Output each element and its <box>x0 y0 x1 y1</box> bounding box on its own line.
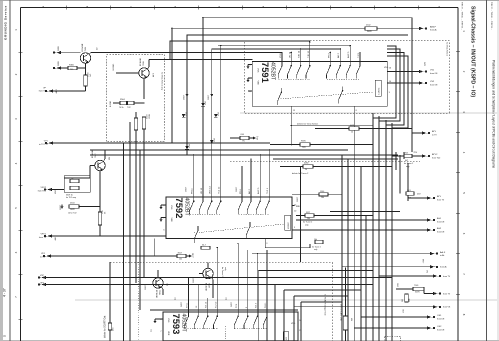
wire down to VP rail <box>85 86 87 91</box>
diode D3144 <box>185 146 189 149</box>
resistor R75R <box>300 143 310 146</box>
svg-text:ILGND: ILGND <box>110 100 112 107</box>
resistor R3309a <box>70 179 79 182</box>
svg-text:AD 2: AD 2 <box>337 52 340 58</box>
wire vertical bus at 203 <box>202 18 204 185</box>
wire emitter down <box>85 63 87 75</box>
wire vertical at 211.7 <box>211 49 213 185</box>
wire RGN with arrow <box>230 137 240 139</box>
svg-text:TU2 12: TU2 12 <box>219 186 221 194</box>
wire AS2 output <box>292 229 427 231</box>
right margin rule <box>486 0 488 341</box>
top ruler ticks <box>65 6 67 10</box>
wire bus E5 <box>143 144 145 278</box>
IC7591 switch array 1 <box>278 62 283 79</box>
svg-text:ATV: ATV <box>437 195 442 198</box>
resistor R3507 <box>177 254 186 257</box>
wire vertical at 187 <box>186 35 188 155</box>
transistor Q7508 <box>153 278 163 288</box>
wire top bus A <box>203 17 412 19</box>
wire bus down D2 <box>378 116 380 341</box>
svg-text:4 - 37: 4 - 37 <box>3 288 7 297</box>
svg-text:Platinenabbildungen und Schalt: Platinenabbildungen und Schaltpläne / La… <box>492 60 496 168</box>
wire TOL down <box>99 225 101 236</box>
svg-text:BC848B: BC848B <box>155 290 157 298</box>
svg-text:GRDY: GRDY <box>297 196 299 202</box>
wire right col vert 2 <box>399 155 401 194</box>
wire bus down D4 <box>391 123 393 341</box>
svg-text:from TV: from TV <box>437 199 445 201</box>
svg-text:TVR 37 ... TVR 41 ... TVR 55: TVR 37 ... TVR 41 ... TVR 55 ... <box>490 2 492 30</box>
svg-text:100R: 100R <box>149 114 151 119</box>
wire 7593 top bus <box>150 309 298 311</box>
diode D3145 <box>214 114 218 117</box>
wire bus corner 2 <box>387 49 400 113</box>
svg-text:GRDY: GRDY <box>236 186 238 192</box>
svg-text:VFV1: VFV1 <box>41 234 47 236</box>
svg-text:TV 11: TV 11 <box>187 302 189 308</box>
svg-text:for Tuner 2: for Tuner 2 <box>404 162 413 165</box>
svg-text:from DE: from DE <box>437 318 445 320</box>
wire VS1 output <box>387 71 419 73</box>
svg-text:RGN: RGN <box>301 141 306 143</box>
svg-text:P8 4: P8 4 <box>328 53 330 58</box>
dotted line delete for SCART Out <box>138 262 140 341</box>
svg-text:LOGIC: LOGIC <box>288 222 290 229</box>
svg-text:GRD: GRD <box>58 46 60 51</box>
wire vertical at 220.7 <box>220 46 222 185</box>
wire base 7507 <box>90 165 95 167</box>
diode D3141 <box>201 103 205 106</box>
wire vertical at 300.5 <box>300 167 302 263</box>
wire VTV rail <box>53 142 270 144</box>
resistor R3304 <box>84 75 87 86</box>
svg-text:VD 15: VD 15 <box>201 187 203 194</box>
wire bus C3 <box>360 167 362 341</box>
svg-text:AMLP: AMLP <box>430 25 436 28</box>
wire top bus C <box>187 34 408 36</box>
wire emitter 7507 down <box>99 171 101 212</box>
resistor R282 <box>405 294 408 302</box>
svg-text:for TU2 amp: for TU2 amp <box>66 197 76 199</box>
wire right col vert 1 <box>395 152 397 170</box>
svg-text:ASC 5: ASC 5 <box>347 51 350 58</box>
svg-text:Rx: Rx <box>71 178 73 180</box>
IC7592 dashed control 1 <box>190 214 221 216</box>
svg-text:7592: 7592 <box>174 198 185 219</box>
svg-text:10k: 10k <box>321 197 324 199</box>
svg-text:3460: 3460 <box>425 62 427 66</box>
resistor R3508 <box>201 246 210 249</box>
wire MID output <box>292 205 295 207</box>
ground at 7591 <box>247 65 250 69</box>
wire bus E2 <box>129 122 131 341</box>
svg-text:P8 4: P8 4 <box>240 189 242 194</box>
wire bus B6 <box>300 302 302 341</box>
svg-text:282: 282 <box>402 299 404 302</box>
wire jog D2 <box>379 113 400 121</box>
svg-text:7591: 7591 <box>260 62 271 83</box>
svg-text:VSS: VSS <box>170 205 172 210</box>
wire 7508 leads <box>157 270 159 278</box>
svg-text:25/1: 25/1 <box>405 153 409 155</box>
svg-text:TJE 12: TJE 12 <box>308 50 310 58</box>
wire 7592 pin3 route <box>265 239 310 248</box>
IC7591 dashed link lower <box>278 92 373 99</box>
IC7592 pin stubs group2 <box>241 167 243 198</box>
svg-text:GRDY: GRDY <box>181 301 183 307</box>
wire at 345.5 <box>345 268 347 316</box>
svg-text:ILGND: ILGND <box>113 63 115 70</box>
svg-text:only: only <box>314 249 317 251</box>
svg-text:4042: 4042 <box>55 190 57 194</box>
svg-text:1k: 1k <box>351 131 353 133</box>
svg-text:to TV: to TV <box>432 133 437 136</box>
svg-text:10k: 10k <box>307 218 310 220</box>
IC7592 dashed lower link <box>194 224 284 233</box>
svg-text:TU2 1: TU2 1 <box>265 302 267 308</box>
wire collector 7507 up <box>104 159 106 161</box>
dashed partial box bottom <box>385 336 401 341</box>
svg-text:25/1: 25/1 <box>407 190 411 192</box>
wire VFV1 rail continue <box>100 235 166 237</box>
svg-text:from DE: from DE <box>437 231 445 233</box>
svg-text:740: 740 <box>70 69 73 71</box>
svg-text:VSS: VSS <box>257 68 259 73</box>
svg-text:from OE: from OE <box>430 84 438 86</box>
svg-text:from TU2: from TU2 <box>38 190 47 192</box>
wire ATV to TV output <box>412 132 422 134</box>
wire vertical at 110 <box>109 262 111 323</box>
wire collector to right bus <box>90 53 92 54</box>
svg-text:for Tuner 2: for Tuner 2 <box>221 267 223 278</box>
svg-text:GRD: GRD <box>58 61 60 66</box>
svg-text:VFV2: VFV2 <box>41 187 47 189</box>
svg-text:AdLF: AdLF <box>440 251 446 254</box>
paper fold lines <box>240 112 497 114</box>
svg-text:340R: 340R <box>367 31 372 33</box>
svg-text:delete for View Select: delete for View Select <box>297 123 319 126</box>
svg-text:BC848B: BC848B <box>205 283 207 291</box>
resistor R25V b <box>406 192 414 195</box>
filter box 3309 <box>64 176 90 193</box>
wire bus corner 4 <box>387 56 408 113</box>
svg-text:from DE: from DE <box>437 329 445 331</box>
wire bus corner 3 <box>387 53 404 114</box>
svg-text:delete for SCART Out: delete for SCART Out <box>104 315 107 338</box>
wire through R4081 <box>315 128 349 130</box>
svg-text:Signal-Chassis – IN/OUT (KSPD: Signal-Chassis – IN/OUT (KSPD – IO) <box>470 6 476 97</box>
svg-text:from TU2: from TU2 <box>432 157 441 159</box>
wire ATV2 output <box>392 155 404 157</box>
svg-text:VEE: VEE <box>167 331 169 336</box>
svg-text:only: only <box>224 267 226 271</box>
resistor R1540 <box>319 193 328 196</box>
wire bus corner 5 <box>411 18 413 152</box>
IC7593 pin stubs group2 <box>237 244 239 313</box>
wire bus B1 <box>258 270 373 272</box>
wire corner at 170 <box>169 41 171 60</box>
svg-text:10k: 10k <box>179 259 182 261</box>
wire VF1 rail <box>51 255 177 257</box>
wire across resistor pair <box>113 102 120 104</box>
svg-text:3144: 3144 <box>189 144 191 148</box>
wire R4082 <box>280 166 303 168</box>
svg-text:to TV TXT: to TV TXT <box>39 143 49 146</box>
svg-text:74.5k: 74.5k <box>119 107 124 109</box>
IC7591 switch array 2 <box>327 62 332 79</box>
IC7593 switch array 2 <box>234 312 239 329</box>
svg-text:7593: 7593 <box>171 314 182 335</box>
IC7592 dashed control 2 <box>239 214 270 216</box>
wire bus B5 <box>293 296 295 341</box>
svg-text:OS2: OS2 <box>437 326 442 328</box>
wire from TV row 1 <box>379 275 433 277</box>
wire bus E3 <box>135 112 137 283</box>
svg-text:VEE: VEE <box>170 218 172 223</box>
wire mid bus 4 <box>150 149 348 151</box>
wire jog D4 <box>392 113 408 128</box>
wire R3527 <box>296 215 305 217</box>
wire right col vert 4 <box>407 163 409 201</box>
svg-text:LO: LO <box>286 337 288 340</box>
svg-text:from AL: from AL <box>430 29 438 32</box>
wire collector link to pins <box>164 52 282 54</box>
wire OS1 row <box>361 316 427 318</box>
wire bus B2 <box>266 278 268 341</box>
svg-text:TVR 37 ... TVR 41 ... TVR 55: TVR 37 ... TVR 41 ... TVR 55 ... <box>461 2 463 30</box>
wire base feed <box>61 52 80 54</box>
svg-text:OS1: OS1 <box>437 315 442 317</box>
svg-text:VSS: VSS <box>167 318 169 323</box>
op-amp U7591 multiplexer 4052BT <box>252 62 387 107</box>
wire bus corner 1 <box>387 46 396 113</box>
svg-text:3527: 3527 <box>306 212 310 214</box>
svg-text:ASC 5: ASC 5 <box>257 187 260 194</box>
dashed box for View Select region <box>244 41 449 114</box>
frame left border <box>20 8 22 341</box>
IC7591 pin stubs group1 <box>281 53 283 62</box>
junction dots <box>281 52 283 54</box>
svg-text:3309 1k: 3309 1k <box>66 195 73 197</box>
svg-text:T12 12: T12 12 <box>215 301 217 308</box>
IC7592 lower switch 1 <box>194 226 199 243</box>
wire top bus D <box>170 40 310 42</box>
wire bus F stub joins <box>202 184 204 186</box>
svg-text:TU2 1: TU2 1 <box>267 187 269 194</box>
wire AS1 output <box>296 219 427 221</box>
svg-text:for View Select only: for View Select only <box>161 72 164 91</box>
right ruler ticks <box>456 50 460 52</box>
resistor R4081 <box>349 127 359 130</box>
wire emitter AF1 down <box>143 78 145 99</box>
svg-text:100R: 100R <box>70 209 75 211</box>
IC7592 lower switch 2 <box>246 222 251 239</box>
IC7592 bottom pin 3 <box>264 239 266 247</box>
dashed box for View Select only <box>107 54 165 142</box>
wire bus at 59.5 <box>164 59 252 61</box>
svg-text:4k7: 4k7 <box>405 160 408 162</box>
transistor Q7506 AF1 <box>139 68 149 78</box>
svg-text:GRDY: GRDY <box>208 94 210 100</box>
svg-text:14 for TU2: 14 for TU2 <box>68 213 76 215</box>
svg-text:for Tuner 2: for Tuner 2 <box>303 220 312 223</box>
svg-text:3142: 3142 <box>214 138 216 142</box>
wire R306 to emitter node <box>77 67 86 69</box>
transistor Q7507 <box>95 160 105 170</box>
IC7592 pin stubs group1 <box>193 155 195 197</box>
wire mid bus 1 <box>270 144 300 146</box>
IC7592 LOGIC box <box>285 215 291 230</box>
svg-text:from TV: from TV <box>443 276 451 278</box>
wire bus down D1 <box>372 113 374 341</box>
svg-text:AD 2: AD 2 <box>248 188 251 194</box>
wire from VS row <box>294 306 433 308</box>
ground at 7593 <box>155 318 163 320</box>
wire top bus F <box>212 48 341 50</box>
svg-text:from AL: from AL <box>440 266 448 269</box>
IC7591 bottom stubs <box>290 106 292 144</box>
wire emitter chain down <box>143 129 145 144</box>
IC7591 lower switch 2 <box>339 86 344 103</box>
wire right col vert 3 <box>403 152 405 159</box>
IC7593 dashed vertical <box>224 326 226 341</box>
resistor R306 <box>68 66 77 69</box>
svg-text:3145: 3145 <box>218 112 220 116</box>
resistor R3309b <box>70 186 79 189</box>
IC7593 pin stubs group1 <box>188 278 190 313</box>
svg-text:GRDY: GRDY <box>145 284 147 290</box>
wire bottom rail 1 <box>46 277 392 279</box>
wire vertical at 154.7 <box>154 239 156 257</box>
svg-text:for SCART Output Sele: for SCART Output Sele <box>324 294 327 316</box>
svg-text:3143: 3143 <box>186 112 188 116</box>
wire bottom rail 2 <box>46 284 373 286</box>
resistor R484 <box>108 323 111 330</box>
frame top border <box>21 7 459 9</box>
svg-text:4052BT: 4052BT <box>270 62 276 81</box>
svg-text:only: only <box>406 166 410 168</box>
wire mid bus 3 <box>273 158 398 160</box>
op-amp U7592 multiplexer 4052BT <box>166 197 292 239</box>
svg-text:VEE: VEE <box>257 81 259 86</box>
dashed line tuner2 region <box>230 160 420 162</box>
resistor R2502 <box>365 27 377 31</box>
svg-text:BC848B: BC848B <box>92 150 94 158</box>
svg-text:from VS: from VS <box>443 307 451 309</box>
resistor R25V tuner2 <box>404 154 412 157</box>
svg-text:GRDY: GRDY <box>186 186 188 192</box>
svg-text:4A42: 4A42 <box>55 89 58 93</box>
wire vertical at 172 <box>171 28 173 143</box>
svg-text:LOGIC: LOGIC <box>379 87 381 94</box>
wire mid bus 5 <box>330 211 400 213</box>
IC7591 dashed control line 1 <box>279 78 311 80</box>
svg-text:4052BT: 4052BT <box>184 198 190 217</box>
IC7593 LOGIC box <box>283 332 289 341</box>
frame right border <box>457 8 459 341</box>
wire R7561 <box>396 288 413 290</box>
IC7591 lower switch 1 <box>278 88 283 105</box>
svg-text:1M: 1M <box>109 157 111 160</box>
wire bus E1 <box>123 143 125 341</box>
wire VS2 output <box>387 82 419 84</box>
svg-text:for View Select: for View Select <box>446 42 449 56</box>
transistor Q7509 <box>203 268 213 278</box>
resistor R7561 <box>413 287 424 291</box>
svg-text:VLQ: VLQ <box>257 136 259 140</box>
wire OS2 row <box>355 327 427 329</box>
dashed vertical for SCART Output Select <box>332 262 334 341</box>
svg-text:TU2: TU2 <box>127 107 131 109</box>
svg-text:3141: 3141 <box>205 101 207 105</box>
resistor R3527b <box>315 240 323 243</box>
IC7592 left stubs and grounds <box>161 204 166 206</box>
wire link 125.4 <box>291 124 373 126</box>
svg-text:GRDY: GRDY <box>193 277 195 283</box>
left margin rule <box>9 0 11 341</box>
dashed separator line <box>110 261 333 263</box>
svg-text:34-7: 34-7 <box>202 244 206 246</box>
svg-text:T21 14: T21 14 <box>206 301 208 308</box>
ground at R2304 <box>61 205 64 209</box>
wire top bus B AMLP <box>172 27 419 29</box>
wire ATV output <box>408 197 427 199</box>
resistor R484b <box>343 316 348 330</box>
svg-text:GRD: GRD <box>398 282 400 287</box>
resistor R504 pair <box>120 101 127 104</box>
svg-text:VDD: VDD <box>291 323 296 325</box>
wire base AF1 <box>116 72 139 74</box>
wire bus down D3 <box>385 120 387 341</box>
wire R3507 arrow <box>186 255 189 257</box>
svg-text:only: only <box>305 224 309 226</box>
wire to R306 <box>61 67 68 69</box>
diode D3142 <box>210 140 214 143</box>
wire from TV row 2 <box>424 293 433 295</box>
svg-text:MID: MID <box>296 206 300 208</box>
svg-text:4A4: 4A4 <box>54 237 57 240</box>
svg-text:10k: 10k <box>314 239 317 241</box>
wire bus B3 <box>274 285 276 341</box>
resistor R3527 <box>305 214 314 217</box>
resistor R3310 <box>134 118 137 130</box>
resistor R3303 <box>142 117 145 129</box>
svg-text:GRDY: GRDY <box>231 301 233 307</box>
svg-text:1k: 1k <box>305 169 307 171</box>
diode D3143 <box>182 114 186 117</box>
svg-text:from TV: from TV <box>39 237 47 239</box>
svg-text:1540: 1540 <box>320 191 324 193</box>
IC7591 left pin stubs <box>248 64 252 66</box>
IC7593 dashed control <box>185 327 218 329</box>
svg-text:BC848B: BC848B <box>140 58 142 66</box>
wire top bus E <box>218 45 350 47</box>
resistor R2304 <box>69 205 79 208</box>
svg-text:from TV: from TV <box>443 293 451 295</box>
wire jog D3 <box>386 113 404 125</box>
wire bus C2 <box>347 159 349 341</box>
svg-text:VDC 14: VDC 14 <box>210 186 212 194</box>
wire R1540 <box>292 193 319 195</box>
wire jog D1 <box>373 113 396 118</box>
svg-text:from OE: from OE <box>430 73 438 75</box>
svg-text:325R: 325R <box>415 292 420 294</box>
svg-text:DVI: DVI <box>427 270 429 273</box>
svg-text:+13A: +13A <box>192 253 195 258</box>
svg-text:Y2E 14: Y2E 14 <box>299 50 301 58</box>
svg-text:ATV2: ATV2 <box>432 153 438 156</box>
